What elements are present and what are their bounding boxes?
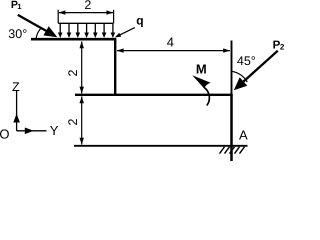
svg-text:30°: 30°: [8, 27, 27, 41]
svg-text:M: M: [196, 62, 207, 77]
svg-text:2: 2: [280, 42, 285, 51]
svg-text:A: A: [239, 128, 248, 143]
svg-text:O: O: [0, 126, 10, 141]
svg-text:Y: Y: [50, 123, 59, 138]
svg-text:45°: 45°: [237, 54, 256, 68]
svg-text:2: 2: [84, 0, 91, 12]
svg-text:Z: Z: [12, 80, 20, 94]
svg-text:1: 1: [17, 2, 21, 11]
svg-text:2: 2: [66, 69, 80, 76]
svg-text:q: q: [136, 14, 143, 28]
svg-text:4: 4: [167, 34, 174, 49]
svg-text:2: 2: [66, 118, 80, 125]
